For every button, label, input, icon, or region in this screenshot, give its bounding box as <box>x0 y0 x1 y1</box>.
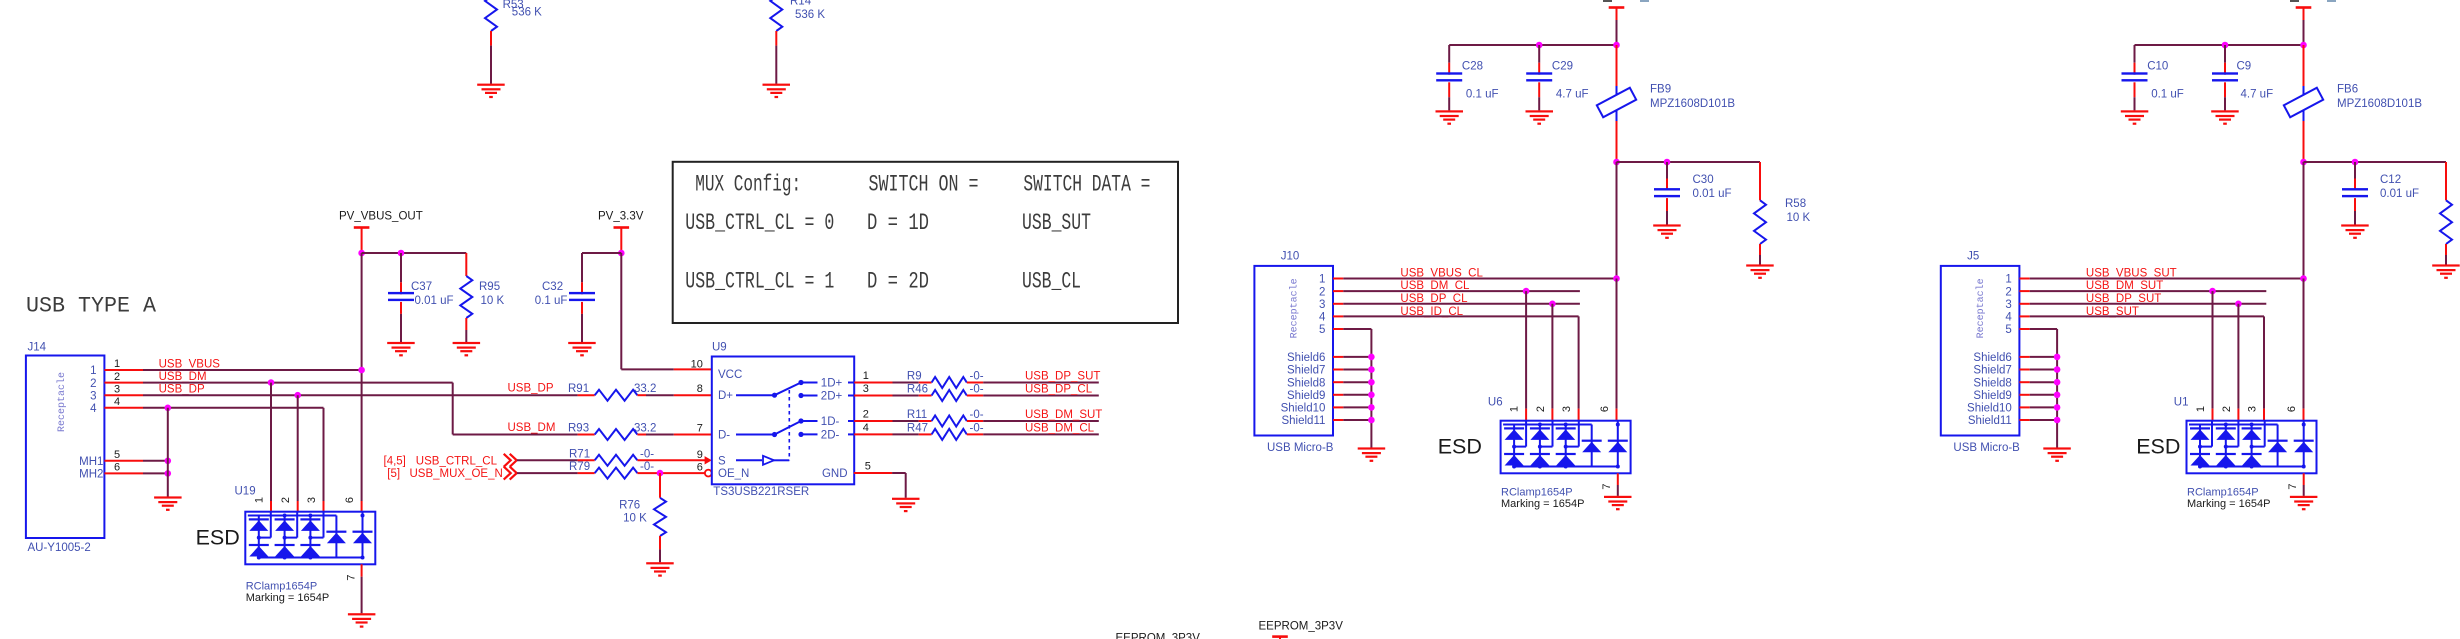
node below FB9 <box>1613 159 1620 166</box>
svg-text:U6: U6 <box>1488 397 1503 409</box>
svg-text:R11: R11 <box>907 409 927 421</box>
wire FB6 node right <box>2304 161 2447 163</box>
wire J5 pin5 to shield bus <box>2019 328 2029 330</box>
wire J10 pin5 to shield bus <box>1333 328 1343 330</box>
U9 S input buffer <box>736 459 762 461</box>
U1 right diode A <box>2277 441 2279 467</box>
svg-text:6: 6 <box>344 497 356 503</box>
U6 diode column 1 <box>1513 425 1515 467</box>
svg-text:1: 1 <box>90 365 96 377</box>
U1 right diode B (pin6-7 path) <box>2303 421 2305 467</box>
ground below C9 <box>2211 110 2239 112</box>
ESD array U1 box <box>2187 421 2317 474</box>
svg-text:1D-: 1D- <box>821 416 840 428</box>
U9 switch arm D- to 1D- <box>775 421 802 435</box>
svg-text:536 K: 536 K <box>795 9 825 21</box>
svg-text:USB_DM: USB_DM <box>508 422 556 434</box>
U9 switch D+ input <box>736 394 775 396</box>
wire MH1 row <box>104 460 143 462</box>
svg-text:5: 5 <box>865 461 871 473</box>
U1 internal top bus <box>2189 424 2278 426</box>
U6 pin jog wires <box>1525 421 1527 447</box>
svg-text:R71: R71 <box>569 448 590 460</box>
svg-text:[4,5]: [4,5] <box>384 455 406 467</box>
U1 diode column 2 <box>2225 425 2227 467</box>
svg-text:FB6: FB6 <box>2337 84 2358 96</box>
svg-text:ESD: ESD <box>2136 434 2180 458</box>
svg-text:3: 3 <box>306 497 318 503</box>
svg-text:Shield9: Shield9 <box>1287 390 1325 402</box>
svg-text:7: 7 <box>2287 483 2299 489</box>
capacitor C12 <box>2354 162 2356 179</box>
wire FB6 node down to USB_VBUS_SUT <box>2303 162 2305 279</box>
svg-text:0.1 uF: 0.1 uF <box>535 295 568 307</box>
svg-text:EEPROM_3P3V: EEPROM_3P3V <box>1259 621 1344 633</box>
U6 internal top bus <box>1503 424 1592 426</box>
svg-text:R93: R93 <box>568 423 589 435</box>
resistor R47 -0- <box>854 433 892 435</box>
svg-text:MUX Config:: MUX Config: <box>695 172 801 199</box>
svg-text:Shield11: Shield11 <box>1968 415 2012 427</box>
svg-text:-0-: -0- <box>970 384 984 396</box>
svg-text:9: 9 <box>697 449 703 461</box>
svg-text:1: 1 <box>2005 274 2011 286</box>
svg-text:PV_3.3V: PV_3.3V <box>598 211 644 223</box>
wire U6 pin7 to ground <box>1617 473 1619 485</box>
wire decoupling rail right <box>2135 44 2304 46</box>
wire USB_VBUS_SUT row <box>2019 278 2029 280</box>
wire FB9 node to R58 <box>1617 161 1761 163</box>
svg-text:Shield7: Shield7 <box>1973 365 2011 377</box>
capacitor C10 <box>2134 45 2136 63</box>
power symbol EEPROM_3P3V <box>1272 635 1288 638</box>
svg-text:4: 4 <box>863 422 869 434</box>
svg-text:4: 4 <box>2005 312 2012 324</box>
svg-text:Shield10: Shield10 <box>1967 403 2012 415</box>
svg-text:10 K: 10 K <box>481 295 505 307</box>
wire USB_VBUS_CL down to U6 pin6 <box>1616 279 1618 409</box>
svg-text:C30: C30 <box>1693 174 1714 186</box>
resistor R11 -0- <box>854 420 892 422</box>
ground below U6 <box>1604 496 1632 498</box>
svg-text:7: 7 <box>1601 483 1613 489</box>
svg-text:R14: R14 <box>790 0 812 8</box>
svg-text:USB_CTRL_CL: USB_CTRL_CL <box>416 455 498 467</box>
wire USB_SUT down to U1 pin3 <box>2263 316 2265 408</box>
ground below U9 <box>892 498 920 500</box>
ground below C10 <box>2121 110 2149 112</box>
ground below C29 <box>1526 110 1554 112</box>
svg-text:2D-: 2D- <box>821 429 840 441</box>
svg-text:3: 3 <box>2247 406 2259 412</box>
svg-text:1: 1 <box>863 370 869 382</box>
svg-text:USB_DM_SUT: USB_DM_SUT <box>1025 409 1102 421</box>
svg-text:USB_DP_SUT: USB_DP_SUT <box>1025 371 1100 383</box>
svg-text:MPZ1608D101B: MPZ1608D101B <box>2337 98 2422 110</box>
svg-text:-0-: -0- <box>970 409 984 421</box>
svg-text:R58: R58 <box>1785 198 1806 210</box>
wire PV_VBUS_OUT down to USB_VBUS row and U19 pin6 <box>361 253 363 501</box>
svg-text:4.7 uF: 4.7 uF <box>2241 88 2274 100</box>
wire USB_VBUS_SUT down to U1 pin6 <box>2303 279 2305 409</box>
svg-text:VCC: VCC <box>718 369 742 381</box>
svg-text:FB9: FB9 <box>1650 84 1671 96</box>
svg-text:10: 10 <box>691 359 703 371</box>
capacitor C30 <box>1666 162 1668 179</box>
wire decoupling rail <box>1449 44 1616 46</box>
node USB_DP branch to U19 pin2 <box>294 392 301 399</box>
svg-text:3: 3 <box>2005 299 2011 311</box>
svg-text:4: 4 <box>90 403 97 415</box>
svg-text:USB_DM: USB_DM <box>159 371 207 383</box>
svg-text:Marking = 1654P: Marking = 1654P <box>1501 498 1584 510</box>
ground below C28 <box>1436 110 1464 112</box>
node USB_VBUS_CL junction to U6 pin6 <box>1613 275 1620 282</box>
power symbol top right <box>2296 6 2312 9</box>
wire USB_DM down to U19 pin1 <box>270 383 272 501</box>
U19 right diode B (pin6-7 path) <box>362 512 364 558</box>
svg-text:R91: R91 <box>568 383 589 395</box>
ground below J10 shields <box>1358 447 1386 449</box>
U9 switch arm D+ to 1D+ <box>775 383 802 396</box>
svg-text:3: 3 <box>863 383 869 395</box>
svg-text:USB_CTRL_CL = 1: USB_CTRL_CL = 1 <box>685 269 834 296</box>
svg-text:USB_CL: USB_CL <box>1022 269 1081 296</box>
node rail junction at FB9 column <box>1613 42 1620 49</box>
ground below R53 <box>477 84 505 86</box>
svg-text:USB_SUT: USB_SUT <box>1022 210 1091 237</box>
svg-text:J14: J14 <box>28 342 47 354</box>
svg-text:6: 6 <box>1599 406 1611 412</box>
ground below C32 <box>568 342 596 344</box>
svg-text:5: 5 <box>2005 324 2011 336</box>
svg-text:Shield6: Shield6 <box>1973 352 2011 364</box>
ferrite bead FB9 <box>1616 45 1618 86</box>
resistor R53 <box>485 0 497 31</box>
svg-text:C37: C37 <box>411 281 432 293</box>
wire USB_VBUS row <box>104 369 143 371</box>
ground below R76 <box>646 562 674 564</box>
svg-text:2: 2 <box>114 371 120 383</box>
off-page connector chevron S row <box>504 454 517 467</box>
svg-text:C28: C28 <box>1462 60 1483 72</box>
svg-text:536 K: 536 K <box>512 7 542 19</box>
svg-text:OE_N: OE_N <box>718 468 749 480</box>
svg-text:GND: GND <box>822 468 848 480</box>
wire USB_DP_SUT down to U1 pin2 <box>2237 304 2239 409</box>
pin 6 inversion bubble <box>705 470 712 477</box>
U9 dashed control line <box>788 390 790 460</box>
wire USB_DM row <box>104 382 143 384</box>
svg-text:5: 5 <box>1319 324 1325 336</box>
svg-text:R76: R76 <box>619 499 640 511</box>
U1 diode column 1 <box>2199 425 2201 467</box>
wire PV_VBUS_OUT rail <box>362 252 467 254</box>
ground below C30 <box>1653 224 1681 226</box>
capacitor C9 <box>2224 45 2226 63</box>
U19 diode column 3 <box>309 516 311 558</box>
svg-text:Shield10: Shield10 <box>1281 403 1326 415</box>
ground below R95 <box>453 342 481 344</box>
svg-text:D-: D- <box>718 430 730 442</box>
svg-text:1D+: 1D+ <box>821 378 843 390</box>
svg-text:USB TYPE A: USB TYPE A <box>26 293 157 318</box>
svg-text:SWITCH ON =: SWITCH ON = <box>869 172 979 199</box>
svg-text:Shield6: Shield6 <box>1287 352 1325 364</box>
resistor R58 <box>1759 162 1761 200</box>
svg-text:[5]: [5] <box>387 468 400 480</box>
svg-text:U19: U19 <box>235 486 256 498</box>
U19 pin jog wires <box>270 512 272 538</box>
svg-text:EEPROM_3P3V: EEPROM_3P3V <box>1116 633 1201 639</box>
wire USB_DP_CL down to U6 pin2 <box>1551 304 1553 409</box>
svg-text:Shield7: Shield7 <box>1287 365 1325 377</box>
svg-text:USB_DP_CL: USB_DP_CL <box>1025 384 1093 396</box>
svg-text:TS3USB221RSER: TS3USB221RSER <box>713 486 809 498</box>
U6 diode column 2 <box>1539 425 1541 467</box>
svg-text:2: 2 <box>90 378 96 390</box>
resistor at right edge <box>2445 162 2447 200</box>
svg-text:C32: C32 <box>542 281 563 293</box>
capacitor C37 <box>400 253 402 282</box>
svg-text:2: 2 <box>863 409 869 421</box>
svg-text:RClamp1654P: RClamp1654P <box>1501 487 1573 499</box>
svg-text:7: 7 <box>697 423 703 435</box>
svg-text:RClamp1654P: RClamp1654P <box>246 581 318 593</box>
wire R91 to U9 pin 8 <box>674 394 712 396</box>
svg-text:1: 1 <box>1509 406 1521 412</box>
resistor R14 <box>770 0 782 31</box>
svg-text:D = 2D: D = 2D <box>867 269 929 296</box>
wire MH2 row <box>104 472 143 474</box>
op-amp U9 mux box <box>712 357 854 485</box>
wire USB_VBUS_CL row <box>1333 278 1343 280</box>
svg-text:-0-: -0- <box>970 371 984 383</box>
wire U9 GND pin 5 to ground <box>854 472 892 474</box>
U9 output label ticks <box>848 382 854 384</box>
ground below C12 <box>2341 224 2369 226</box>
wire USB_DM_SUT down to U1 pin1 <box>2212 291 2214 409</box>
U19 right diode A <box>335 532 337 558</box>
svg-text:2: 2 <box>1535 406 1547 412</box>
wire R93 to U9 pin 7 <box>674 434 712 436</box>
wire R14 to ground <box>775 46 777 84</box>
wire USB_DM_CL row <box>1333 290 1343 292</box>
MUX Config table box <box>673 162 1178 323</box>
svg-text:D+: D+ <box>718 390 733 402</box>
svg-text:USB_MUX_OE_N: USB_MUX_OE_N <box>410 468 503 480</box>
svg-text:ESD: ESD <box>196 525 240 549</box>
U19 diode column 2 <box>284 516 286 558</box>
svg-text:J5: J5 <box>1967 250 1979 262</box>
ground below C37 <box>387 342 415 344</box>
svg-text:Shield8: Shield8 <box>1973 377 2011 389</box>
clipped text fragments top right <box>2290 0 2299 2</box>
wire FB9 node down to USB_VBUS_CL <box>1616 162 1618 279</box>
connector J5 box <box>1941 266 2020 436</box>
svg-text:Marking = 1654P: Marking = 1654P <box>246 592 329 604</box>
pin 9 arrow into U9 <box>705 456 712 464</box>
U1 pin jog wires <box>2211 421 2213 447</box>
ESD array U19 box <box>245 512 375 565</box>
svg-text:USB_DP: USB_DP <box>508 383 554 395</box>
svg-text:ESD: ESD <box>1438 434 1482 458</box>
ground below right edge resistor <box>2432 264 2460 266</box>
svg-text:2D+: 2D+ <box>821 391 843 403</box>
svg-text:R95: R95 <box>479 281 500 293</box>
node C12 branch <box>2352 159 2359 166</box>
ground below J14 <box>154 496 182 498</box>
svg-text:0.1 uF: 0.1 uF <box>2151 88 2184 100</box>
svg-text:Marking = 1654P: Marking = 1654P <box>2187 498 2270 510</box>
node pin4 branch junction <box>165 405 172 412</box>
svg-text:6: 6 <box>114 462 120 474</box>
resistor R76 pulldown <box>659 473 661 498</box>
U9 switch D- input <box>736 434 775 436</box>
svg-text:PV_VBUS_OUT: PV_VBUS_OUT <box>339 211 423 223</box>
svg-text:R79: R79 <box>569 461 590 473</box>
ground below R58 <box>1746 264 1774 266</box>
wire USB_DM corner to D- row <box>452 383 454 435</box>
svg-text:0.01 uF: 0.01 uF <box>1693 188 1732 200</box>
svg-text:U1: U1 <box>2174 397 2189 409</box>
wire USB_DM_CL down to U6 pin1 <box>1525 291 1527 409</box>
capacitor C32 <box>582 252 621 254</box>
svg-text:1: 1 <box>254 497 266 503</box>
svg-text:USB_CTRL_CL = 0: USB_CTRL_CL = 0 <box>685 210 834 237</box>
svg-text:C10: C10 <box>2147 60 2168 72</box>
svg-text:SWITCH DATA =: SWITCH DATA = <box>1023 172 1150 199</box>
wire USB_SUT row <box>2019 315 2029 317</box>
svg-text:8: 8 <box>697 383 703 395</box>
ground below U1 <box>2290 496 2318 498</box>
wire R53 to ground <box>490 46 492 84</box>
wire USB_DP_SUT row <box>2019 303 2029 305</box>
svg-text:0.1 uF: 0.1 uF <box>1466 88 1499 100</box>
wires J10 shield pins <box>1333 356 1343 358</box>
svg-text:0.01 uF: 0.01 uF <box>415 295 454 307</box>
node C30 branch <box>1664 159 1671 166</box>
ground below J5 shields <box>2043 447 2071 449</box>
ground below R14 <box>763 84 791 86</box>
node USB_DM branch to U19 pin1 <box>268 379 275 386</box>
wire U1 pin7 to ground <box>2303 473 2305 485</box>
svg-text:D = 1D: D = 1D <box>867 210 929 237</box>
svg-text:1: 1 <box>114 358 120 370</box>
wire USB_DP row to R91 <box>104 394 143 396</box>
svg-text:Shield11: Shield11 <box>1281 415 1325 427</box>
svg-text:Receptacle: Receptacle <box>56 372 68 432</box>
connector J10 box <box>1254 266 1333 436</box>
svg-text:4.7 uF: 4.7 uF <box>1556 88 1589 100</box>
wire shield vertical to ground <box>167 408 169 497</box>
U1 diode column 3 <box>2251 425 2253 467</box>
svg-text:Shield9: Shield9 <box>1973 390 2011 402</box>
wire USB_DM_SUT row <box>2019 290 2029 292</box>
svg-text:USB_DP: USB_DP <box>159 384 205 396</box>
svg-text:3: 3 <box>1561 406 1573 412</box>
svg-text:U9: U9 <box>712 342 727 354</box>
svg-text:USB_VBUS: USB_VBUS <box>159 358 221 370</box>
U19 internal top bus <box>248 515 337 517</box>
wires J5 shield pins <box>2019 356 2029 358</box>
svg-text:C12: C12 <box>2380 174 2401 186</box>
svg-text:USB Micro-B: USB Micro-B <box>1953 442 2020 454</box>
svg-text:-0-: -0- <box>970 422 984 434</box>
wire USB_ID_CL down to U6 pin3 <box>1578 316 1580 408</box>
node OE_N pulldown junction <box>657 470 664 477</box>
svg-text:10 K: 10 K <box>1787 212 1811 224</box>
svg-text:0.01 uF: 0.01 uF <box>2380 188 2419 200</box>
svg-text:Receptacle: Receptacle <box>1975 278 1987 338</box>
wire USB_DP_CL row <box>1333 303 1343 305</box>
svg-text:MH1: MH1 <box>79 456 103 468</box>
U6 right diode B (pin6-7 path) <box>1617 421 1619 467</box>
svg-text:USB_DM_CL: USB_DM_CL <box>1025 422 1095 434</box>
svg-text:1: 1 <box>1319 274 1325 286</box>
svg-text:MPZ1608D101B: MPZ1608D101B <box>1650 98 1735 110</box>
wire J14 pin4 row <box>104 407 143 409</box>
svg-text:MH2: MH2 <box>79 469 103 481</box>
svg-text:Shield8: Shield8 <box>1287 377 1325 389</box>
svg-text:3: 3 <box>90 390 96 402</box>
svg-text:1: 1 <box>2195 406 2207 412</box>
wire USB_ID_CL row <box>1333 315 1343 317</box>
node USB_VBUS / PV_VBUS_OUT junction <box>358 367 365 374</box>
resistor R95 <box>465 253 467 276</box>
svg-text:-0-: -0- <box>640 448 654 460</box>
U6 diode column 3 <box>1565 425 1567 467</box>
svg-text:2: 2 <box>280 497 292 503</box>
svg-text:6: 6 <box>697 462 703 474</box>
svg-text:S: S <box>718 455 726 467</box>
ferrite bead FB6 <box>2303 45 2305 86</box>
svg-text:10 K: 10 K <box>623 513 647 525</box>
svg-text:R46: R46 <box>907 384 928 396</box>
svg-text:3: 3 <box>1319 299 1325 311</box>
svg-text:2: 2 <box>1319 286 1325 298</box>
power symbol top middle <box>1609 6 1625 9</box>
svg-text:Receptacle: Receptacle <box>1288 278 1300 338</box>
node PV_3.3V junction <box>618 250 625 257</box>
connector J14 box <box>26 356 105 539</box>
resistor R46 -0- <box>854 395 892 397</box>
capacitor C29 <box>1538 45 1540 63</box>
U19 internal bottom bus <box>259 557 363 559</box>
svg-text:3: 3 <box>114 383 120 395</box>
svg-text:33.2: 33.2 <box>634 383 656 395</box>
ESD array U6 box <box>1501 421 1631 474</box>
U6 right diode A <box>1591 441 1593 467</box>
svg-text:J10: J10 <box>1281 250 1300 262</box>
svg-text:6: 6 <box>2286 406 2298 412</box>
svg-text:AU-Y1005-2: AU-Y1005-2 <box>28 542 91 554</box>
svg-text:USB Micro-B: USB Micro-B <box>1267 442 1334 454</box>
resistor R9 -0- <box>854 382 892 384</box>
wire USB_DP down to U19 pin2 <box>297 395 299 501</box>
svg-text:RClamp1654P: RClamp1654P <box>2187 487 2259 499</box>
U19 diode column 1 <box>258 516 260 558</box>
wire U19 pin7 to ground <box>361 564 363 576</box>
svg-text:4: 4 <box>1319 312 1326 324</box>
svg-text:7: 7 <box>345 574 357 580</box>
svg-text:-0-: -0- <box>640 461 654 473</box>
node rail junction at C29 <box>1536 42 1543 49</box>
svg-text:4: 4 <box>114 396 120 408</box>
svg-text:5: 5 <box>114 449 120 461</box>
wire pin4 down to U19 pin3 <box>323 408 325 501</box>
svg-text:R47: R47 <box>907 422 928 434</box>
